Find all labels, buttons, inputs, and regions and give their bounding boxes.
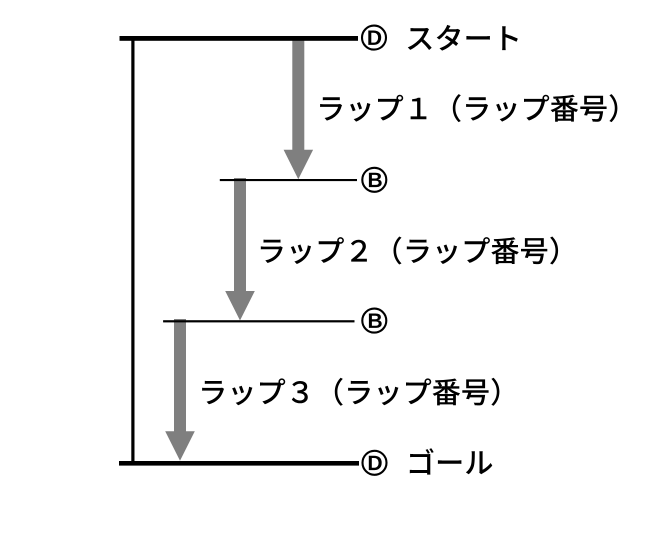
label: goal text ゴール (410, 448, 493, 474)
lap arrow 1 (start to lap line 1, gray) (284, 38, 314, 179)
goal line (bottom horizontal thick bar) (119, 461, 359, 466)
circled D (start marker): letter D (368, 31, 381, 45)
lap line 1 (thin horizontal) (220, 179, 357, 181)
circled D (start marker): circle (362, 26, 386, 50)
lap line 2 (thin horizontal) (163, 320, 354, 322)
label: lap 1 text ラップ１（ラップ番号） (320, 94, 617, 122)
circled D (goal marker): circle (363, 451, 387, 475)
course line (left vertical) (131, 38, 134, 465)
circled B (lap marker 2): letter B (369, 314, 382, 328)
circled D (goal marker): letter D (369, 456, 382, 470)
label: lap 2 text ラップ２（ラップ番号） (261, 237, 558, 265)
lap arrow 3 (lap line 2 to goal, gray) (165, 319, 195, 461)
start line (top horizontal thick bar) (120, 36, 359, 41)
label: start text スタート (408, 25, 518, 51)
circled B (lap marker 2): circle (362, 309, 386, 333)
label: lap 3 text ラップ３（ラップ番号） (202, 378, 499, 406)
circled B (lap marker 1): circle (362, 168, 386, 192)
lap arrow 2 (lap line 1 to lap line 2, gray) (225, 178, 255, 321)
circled B (lap marker 1): letter B (369, 173, 382, 187)
